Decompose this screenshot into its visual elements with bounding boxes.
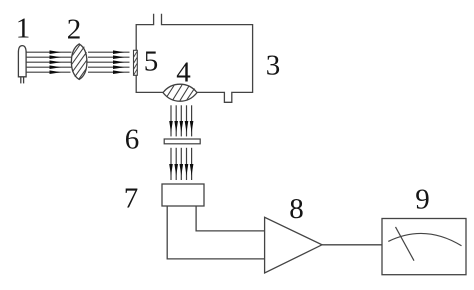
svg-text:3: 3	[266, 50, 281, 82]
amplifier 8 (triangle)	[265, 217, 322, 273]
lamp 1 (light source bulb)	[18, 46, 26, 84]
detector box 7	[162, 184, 204, 206]
svg-text:4: 4	[176, 57, 191, 89]
wire amp to meter	[322, 244, 382, 246]
svg-text:5: 5	[144, 46, 159, 78]
svg-text:8: 8	[289, 193, 304, 225]
svg-text:7: 7	[124, 183, 139, 215]
filter 6 (thin horizontal plate)	[164, 139, 200, 144]
wire detector to amp (upper)	[196, 206, 265, 231]
meter scale arc	[388, 233, 461, 245]
lens 2 (condenser lens, hatched)	[71, 44, 87, 80]
box 3 (chamber with top port and bottom port)	[136, 14, 252, 103]
svg-text:9: 9	[415, 184, 430, 216]
svg-text:1: 1	[16, 13, 31, 45]
rays lens to slit (5 lines with solid arrowheads)	[87, 52, 130, 72]
meter 9 (box)	[382, 219, 466, 275]
rays lamp to lens (5 lines with solid arrowheads)	[27, 52, 73, 72]
svg-text:6: 6	[125, 124, 140, 156]
wire detector to amp (lower)	[167, 206, 264, 259]
meter needle	[396, 227, 415, 261]
slit 5 (window on left wall, hatched)	[134, 50, 138, 75]
beam lens4 to filter6 (5 vertical lines, arrows down)	[171, 105, 192, 136]
svg-text:2: 2	[67, 14, 82, 46]
lens 4 (on bottom wall of chamber, hatched)	[163, 84, 197, 101]
beam filter6 to detector7 (5 vertical lines, arrows down)	[171, 148, 192, 180]
